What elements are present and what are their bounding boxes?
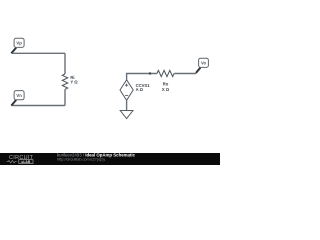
svg-text:Ro: Ro (163, 81, 169, 86)
wire diamond bottom to ground (126, 100, 128, 110)
flag Vp (11, 38, 24, 53)
junction dot (149, 72, 151, 74)
flag Vn (11, 91, 24, 106)
svg-text:Vp: Vp (16, 41, 22, 46)
wire from diamond top up and right (127, 74, 157, 80)
resistor Ro (157, 70, 174, 76)
plus sign (125, 84, 128, 87)
svg-text:A Ω: A Ω (136, 87, 144, 92)
svg-text:Vo: Vo (201, 61, 206, 66)
footer bar (0, 153, 220, 165)
wire Ro to Vo (174, 73, 196, 75)
wire right vertical top (64, 53, 66, 74)
svg-text:Vn: Vn (16, 93, 22, 98)
flag Vo (196, 58, 208, 73)
wire right vertical bottom (64, 89, 66, 105)
minus sign (125, 94, 128, 96)
ground (120, 111, 133, 119)
logo zigzag and LAB (7, 160, 17, 163)
resistor Ri (62, 74, 67, 89)
svg-text:X Ω: X Ω (162, 87, 170, 92)
wire bottom (corner to Vn) (13, 105, 66, 107)
svg-text:Y Ω: Y Ω (70, 80, 78, 85)
controlled source CCVS1 (120, 80, 133, 101)
wire top (Vp to corner) (13, 52, 66, 54)
svg-text:http://circuitlab.com/c27pq2y: http://circuitlab.com/c27pq2y (57, 157, 105, 161)
svg-text:▸LAB: ▸LAB (21, 160, 31, 164)
